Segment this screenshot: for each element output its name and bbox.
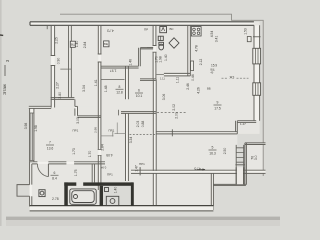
- ВЩ boxes: [70, 41, 109, 47]
- svg-text:2.98: 2.98: [94, 127, 98, 133]
- svg-text:1.40: 1.40: [164, 54, 168, 61]
- svg-text:2.02: 2.02: [172, 104, 176, 111]
- bathroom fixtures: [158, 27, 179, 50]
- protrusion: [17, 185, 30, 197]
- room A/B inner walls: [47, 25, 101, 117]
- room 8: [126, 66, 129, 99]
- svg-text:3.0: 3.0: [254, 155, 258, 160]
- small wall x92: [92, 164, 94, 183]
- svg-text:ПР1: ПР1: [139, 162, 145, 166]
- wall y161.8 with door: [30, 117, 105, 190]
- wall x99 down: [98, 117, 101, 149]
- svg-text:1.75: 1.75: [74, 169, 78, 176]
- svg-text:1.98: 1.98: [34, 125, 38, 132]
- svg-text:2.27: 2.27: [55, 82, 59, 89]
- svg-text:6: 6: [138, 89, 140, 93]
- svg-text:ПР1: ПР1: [73, 128, 79, 132]
- svg-text:3.03: 3.03: [76, 117, 80, 124]
- svg-text:0.94: 0.94: [100, 166, 106, 170]
- door leaf and arc: [47, 164, 49, 177]
- svg-text:1.11: 1.11: [160, 76, 165, 80]
- svg-text:0.90: 0.90: [57, 58, 61, 65]
- svg-text:1.11: 1.11: [175, 77, 179, 83]
- svg-text:1.48: 1.48: [104, 85, 108, 92]
- left margin markings: [0, 35, 10, 95]
- svg-text:7: 7: [49, 141, 51, 145]
- svg-text:ВЩ: ВЩ: [104, 42, 109, 46]
- entrance arrow: [197, 169, 205, 171]
- corridor dashed/dim lines: [130, 134, 156, 136]
- svg-text:6: 6: [54, 171, 56, 175]
- hall walls / closet: [101, 48, 156, 160]
- living room long wall and right wall: [153, 25, 259, 171]
- bath tub: [39, 188, 119, 206]
- svg-text:4.73: 4.73: [107, 28, 114, 32]
- interior light fill (overlapping union): [30, 22, 264, 210]
- below window to protrusion: [30, 162, 32, 185]
- svg-text:1.47: 1.47: [135, 165, 139, 172]
- svg-text:2.84: 2.84: [83, 42, 87, 49]
- svg-text:15.9: 15.9: [211, 64, 217, 68]
- svg-text:1.97: 1.97: [110, 69, 117, 73]
- svg-text:4.26: 4.26: [197, 87, 201, 94]
- left outer wall upper: [29, 25, 55, 108]
- svg-text:2.12: 2.12: [199, 59, 203, 66]
- svg-text:ПР1: ПР1: [107, 173, 113, 177]
- svg-text:0.46: 0.46: [191, 74, 195, 81]
- svg-text:1.53: 1.53: [244, 28, 248, 35]
- svg-text:ВБ: ВБ: [207, 87, 211, 91]
- svg-text:10.1: 10.1: [136, 94, 143, 98]
- scan left edge subtle: [0, 0, 2, 226]
- door gap in mid wall: [171, 129, 173, 136]
- svg-text:3.06: 3.06: [162, 94, 166, 101]
- svg-text:8: 8: [119, 85, 121, 89]
- kitchen stove: [191, 27, 201, 36]
- svg-text:3.41: 3.41: [215, 36, 219, 43]
- svg-text:2.03: 2.03: [136, 121, 140, 128]
- svg-text:2.00: 2.00: [175, 112, 179, 119]
- svg-text:3.34: 3.34: [129, 137, 133, 144]
- svg-text:16.3: 16.3: [209, 151, 216, 155]
- svg-text:1.46: 1.46: [128, 59, 132, 66]
- svg-text:1.41: 1.41: [94, 79, 98, 86]
- svg-text:1.73: 1.73: [72, 148, 76, 155]
- svg-text:13.6: 13.6: [47, 146, 54, 150]
- svg-text:2.46: 2.46: [186, 83, 190, 90]
- svg-text:ВЩ: ВЩ: [71, 43, 76, 47]
- svg-text:2.84: 2.84: [101, 144, 105, 151]
- svg-text:0.88: 0.88: [141, 121, 145, 128]
- bottom wall band: [30, 206, 214, 211]
- bottom scan shadow: [6, 217, 280, 220]
- right wall windows: [247, 37, 260, 96]
- svg-text:4.54: 4.54: [210, 31, 214, 38]
- svg-text:4.05: 4.05: [106, 153, 113, 157]
- svg-text:1.98: 1.98: [158, 56, 162, 63]
- svg-text:Этаж: Этаж: [2, 83, 7, 95]
- lower-left connector wall: [29, 105, 51, 107]
- svg-text:3.98: 3.98: [24, 123, 28, 130]
- svg-text:2.50: 2.50: [223, 148, 227, 155]
- water heater box: [191, 61, 194, 71]
- bottom-right walls: [126, 143, 266, 210]
- white wall fills: [29, 22, 266, 210]
- svg-text:1.47: 1.47: [240, 122, 246, 126]
- lower-left outer wall with window: [17, 108, 34, 206]
- svg-text:17.5: 17.5: [214, 106, 221, 110]
- wc fixture: [39, 190, 45, 197]
- kitchen dashed line: [222, 77, 249, 79]
- small tick in room A: [60, 68, 71, 70]
- svg-text:9: 9: [217, 101, 219, 105]
- svg-text:3.34: 3.34: [82, 85, 86, 92]
- svg-text:2.80: 2.80: [58, 92, 62, 99]
- svg-text:ПР1: ПР1: [109, 128, 115, 132]
- svg-text:2.25: 2.25: [55, 37, 59, 44]
- svg-text:5: 5: [212, 146, 214, 150]
- svg-text:4.78: 4.78: [195, 45, 199, 52]
- room number labels (stacked): [47, 85, 221, 181]
- balcony room: [245, 143, 247, 185]
- bathroom / kitchen walls: [147, 25, 190, 79]
- ladder: [236, 145, 244, 185]
- svg-text:1.70: 1.70: [88, 151, 92, 158]
- right fixture: [106, 196, 119, 205]
- svg-text:ПР: ПР: [144, 28, 148, 32]
- svg-text:Ж3: Ж3: [230, 75, 235, 79]
- svg-text:2.78: 2.78: [52, 197, 59, 201]
- svg-text:1.40: 1.40: [114, 187, 118, 194]
- svg-text:12.8: 12.8: [116, 91, 123, 95]
- svg-text:8.4: 8.4: [52, 177, 57, 181]
- svg-text:4.75: 4.75: [194, 166, 201, 170]
- bathroom block thick walls: [64, 182, 133, 206]
